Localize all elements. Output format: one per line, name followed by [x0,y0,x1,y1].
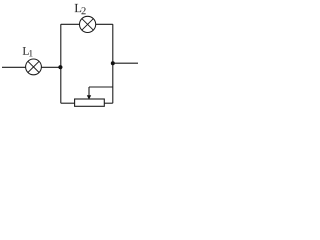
wire L1 to left vertical [41,66,60,68]
arrowhead of wiper [87,95,91,99]
lamp L2 [80,16,96,32]
label L2 [75,4,86,14]
label L1 [23,47,33,56]
rheostat R body [75,99,105,106]
node junction left [58,65,62,69]
wire left lead [2,66,26,68]
node junction right [111,61,115,65]
wiper arm arrow [88,87,90,96]
wire top right segment [96,23,113,25]
wire right vertical [112,24,114,103]
lamp L1 [26,59,42,75]
wire bottom left [61,102,75,104]
wire top left segment [61,23,80,25]
wire bottom right [104,102,113,104]
wire right output lead [113,62,138,64]
wire left vertical [60,24,62,103]
wire wiper horizontal [89,86,113,88]
